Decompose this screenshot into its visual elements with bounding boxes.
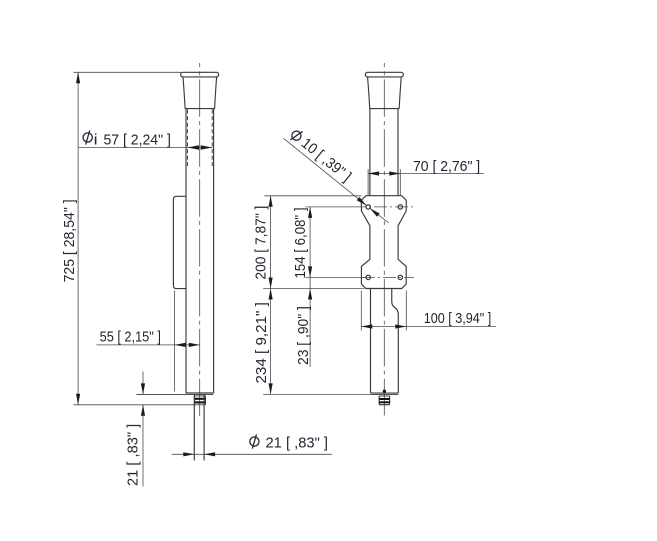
dim phi 21 left arrow [183, 452, 194, 456]
dim 154 top arrow [308, 207, 312, 218]
dim 200 top arrow [269, 196, 273, 207]
svg-text:10 [ ,39" ]: 10 [ ,39" ] [298, 135, 355, 185]
dim 200 top extension line [264, 195, 361, 197]
top holes center line [353, 206, 414, 208]
left view stem pipe [193, 394, 195, 460]
svg-text:57 [ 2,24" ]: 57 [ 2,24" ] [104, 131, 171, 148]
dim 70 left arrow [368, 171, 379, 175]
left view cone [183, 77, 217, 109]
dim 55 right arrow [189, 343, 200, 347]
dim 70 line [368, 173, 484, 175]
dim 100 left arrow [361, 324, 372, 328]
svg-text:55 [ 2,15" ]: 55 [ 2,15" ] [100, 329, 161, 346]
leader phi 10 label [287, 126, 354, 185]
dim 70 right arrow [389, 171, 400, 175]
dim 21 lower line and arrow [142, 405, 144, 487]
leader phi 10 line [284, 138, 367, 205]
svg-text:100 [ 3,94" ]: 100 [ 3,94" ] [424, 310, 492, 327]
plate hole top-right [398, 205, 402, 209]
right view cone bottom line [369, 108, 399, 110]
dim phi-i 57 right arrow [201, 145, 213, 150]
right view mounting plate outline [361, 196, 406, 289]
right view lower tube right edge [392, 289, 399, 394]
right view top rim [365, 72, 403, 77]
left view center line [199, 63, 201, 416]
dim 200 bottom arrow [269, 278, 273, 289]
left view inner bore hidden lines [187, 110, 189, 167]
dim 55 line [96, 344, 199, 346]
dim 234 bottom extension line [263, 393, 370, 395]
dim 21 upper stub and arrow [142, 372, 144, 395]
right view lower tube left edge [370, 289, 372, 394]
dim 55 plate extension line [174, 291, 176, 392]
right view tube bottom second line [371, 393, 399, 395]
dim phi-i 57 left arrow [188, 145, 200, 150]
dim 200 line [270, 196, 272, 289]
dim 234 line [270, 289, 272, 395]
left view side plate [173, 196, 186, 288]
right view threaded nub [379, 396, 390, 405]
svg-text:70 [ 2,76" ]: 70 [ 2,76" ] [413, 158, 480, 175]
left view tube left edge [185, 109, 187, 394]
plate hole top-left [366, 205, 370, 209]
dim phi 21 right arrow [204, 452, 215, 456]
right view upper tube [369, 109, 371, 196]
dim 154 bottom extension line [306, 276, 367, 278]
dim 100 extension lines [360, 291, 362, 331]
dim 100 right arrow [395, 324, 406, 328]
dim 154 top extension line [306, 206, 353, 208]
svg-text:725 [ 28,54" ]: 725 [ 28,54" ] [61, 199, 78, 282]
dim 725 bottom extension line [74, 404, 206, 406]
left view tube bottom second line [136, 393, 213, 395]
dim phi-i 57 line [78, 147, 212, 149]
left view tube bottom line [186, 392, 214, 394]
right view center dot [383, 390, 386, 393]
dim phi 21 symbol [250, 434, 259, 448]
plate hole bottom-right [398, 275, 402, 279]
dim 154 bottom arrow [308, 266, 312, 277]
left view collar [194, 396, 206, 405]
dim phi-i 57 symbol [83, 130, 92, 144]
left view cone bottom line [185, 108, 215, 110]
svg-text:23 [ ,90" ]: 23 [ ,90" ] [295, 306, 312, 365]
dim 725 bottom arrow [76, 394, 80, 405]
dim 234 bottom arrow [269, 383, 273, 394]
dim phi 21 line [172, 453, 332, 455]
svg-text:154 [ 6,08" ]: 154 [ 6,08" ] [292, 208, 309, 279]
dim 70 extension lines [367, 169, 369, 196]
svg-text:i: i [94, 131, 98, 148]
svg-text:234 [ 9,21" ]: 234 [ 9,21" ] [253, 302, 270, 383]
left view top rim [181, 72, 219, 77]
dim 154 line [309, 207, 311, 289]
dim 100 line [361, 326, 496, 328]
svg-text:21 [ ,83" ]: 21 [ ,83" ] [266, 435, 329, 452]
dim 200/234 shared extension line [263, 288, 364, 290]
right view center line [383, 63, 385, 416]
svg-text:200 [ 7,87" ]: 200 [ 7,87" ] [253, 206, 270, 280]
dim 725 top arrow [76, 72, 80, 83]
dim 725 top extension line [74, 71, 182, 73]
leader phi 10 arrow from below [370, 208, 380, 217]
right view cone [368, 77, 402, 109]
leader phi 10 arrow to hole [357, 197, 367, 206]
dim 55 left arrow [175, 343, 186, 347]
plate hole bottom-left [366, 275, 370, 279]
left view tube right edge [213, 109, 215, 394]
dim 23 line and arrow [309, 289, 311, 368]
bottom holes center line [362, 276, 414, 278]
dim 234 top arrow [269, 289, 273, 300]
dim 725 line [77, 72, 79, 405]
svg-text:21 [ ,83" ]: 21 [ ,83" ] [125, 424, 142, 486]
right view tube bottom line [371, 392, 399, 394]
